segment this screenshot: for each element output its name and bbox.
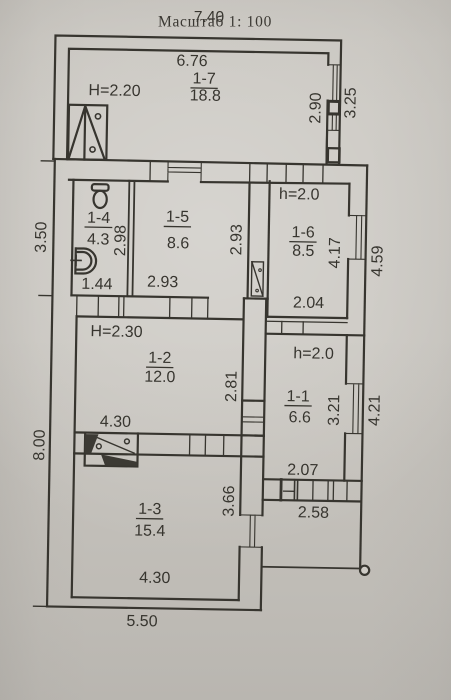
texts room 1-6 <box>277 186 326 312</box>
svg-text:4.21: 4.21 <box>366 395 384 427</box>
underline 1-4 <box>85 226 111 228</box>
svg-text:15.4: 15.4 <box>134 522 166 540</box>
wall 1-6 west <box>267 181 269 316</box>
svg-text:4.59: 4.59 <box>369 245 387 277</box>
door opening 1-7 to 1-5 <box>168 161 202 182</box>
svg-text:6.6: 6.6 <box>288 409 311 426</box>
svg-text:1-2: 1-2 <box>148 350 172 367</box>
svg-text:2.07: 2.07 <box>287 462 319 480</box>
svg-text:1-7: 1-7 <box>192 70 216 87</box>
partition 1-4 / 1-5 <box>127 181 134 297</box>
svg-text:2.04: 2.04 <box>293 294 325 312</box>
survey point circle <box>360 566 369 575</box>
west inner wall middle band <box>71 180 73 295</box>
texts room 1-3 <box>126 501 171 631</box>
svg-text:1-5: 1-5 <box>166 208 190 225</box>
underline 1-2 <box>147 366 173 368</box>
svg-text:3.66: 3.66 <box>221 485 239 517</box>
bottom outer wall <box>47 606 261 610</box>
underline 1-3 <box>137 517 163 519</box>
svg-text:4.30: 4.30 <box>100 413 132 431</box>
svg-text:18.8: 18.8 <box>190 87 222 105</box>
underline 1-6 <box>290 241 316 243</box>
texts room 1-4 <box>81 210 114 294</box>
svg-text:H=2.20: H=2.20 <box>88 82 140 100</box>
left dimension ticks <box>34 161 55 607</box>
toilet tank <box>92 184 109 191</box>
svg-text:H=2.30: H=2.30 <box>90 323 142 341</box>
hallway band 1-6 / 1-1 <box>267 317 347 318</box>
wall band 1-2 / 1-3 <box>75 432 264 435</box>
svg-text:1.44: 1.44 <box>81 276 113 294</box>
svg-text:6.76: 6.76 <box>176 53 208 71</box>
svg-text:3.21: 3.21 <box>326 394 344 426</box>
underline 1-1 <box>285 405 311 407</box>
bottom band of 1-1 <box>263 479 362 481</box>
svg-text:4.3: 4.3 <box>87 231 110 248</box>
room 1-2 west inner wall <box>72 316 77 597</box>
east inner wall <box>344 184 349 481</box>
texts room 1-7 <box>88 51 221 105</box>
window room 1-6 <box>348 215 366 259</box>
wall band between 1-7 and middle rooms <box>53 159 367 165</box>
window room 1-3 east <box>240 515 263 547</box>
svg-text:1-3: 1-3 <box>138 501 162 518</box>
svg-text:4.30: 4.30 <box>139 570 171 588</box>
underline 1-7 <box>191 87 217 89</box>
door 1-1 south <box>281 480 298 501</box>
wash basin <box>75 248 96 273</box>
svg-text:h=2.0: h=2.0 <box>293 345 334 363</box>
window W2 east wall 1-7 <box>327 114 340 130</box>
pier east wall 1-7 <box>328 101 339 114</box>
door opening hallway to 1-1 <box>282 321 304 334</box>
svg-text:h=2.0: h=2.0 <box>279 186 320 204</box>
underline 1-5 <box>164 225 190 227</box>
door leaf strip to hallway <box>251 262 263 296</box>
texts room 1-1 <box>284 345 334 522</box>
stove in 1-7 <box>68 105 107 160</box>
stove between 1-2 and 1-3 <box>85 433 138 467</box>
svg-text:12.0: 12.0 <box>144 369 176 387</box>
fence line to survey point <box>262 567 359 569</box>
svg-text:5.50: 5.50 <box>126 613 158 631</box>
bottom band of middle rooms <box>71 295 267 298</box>
svg-text:4.17: 4.17 <box>326 237 344 269</box>
svg-text:3.25: 3.25 <box>342 87 360 119</box>
inner wall room 1-7 <box>67 49 328 164</box>
texts room 1-5 <box>147 208 190 291</box>
east outer wall <box>360 165 367 566</box>
svg-text:1-4: 1-4 <box>87 210 111 227</box>
window room 1-1 <box>345 384 363 434</box>
outer wall room 1-7 <box>53 36 341 164</box>
svg-text:1-1: 1-1 <box>286 388 310 405</box>
svg-text:2.58: 2.58 <box>298 504 330 522</box>
svg-text:1-6: 1-6 <box>291 224 315 241</box>
svg-text:8.5: 8.5 <box>292 243 315 260</box>
band ticks and doors <box>77 295 208 318</box>
basin tap <box>71 255 81 265</box>
central spine wall <box>239 298 244 600</box>
west outer wall <box>47 159 55 606</box>
svg-text:2.98: 2.98 <box>112 225 130 257</box>
svg-text:2.90: 2.90 <box>307 92 325 124</box>
window W1 east wall 1-7 <box>328 65 341 101</box>
svg-text:Масштаб 1: 100: Масштаб 1: 100 <box>158 14 272 31</box>
partition 1-5 / strip <box>248 183 250 298</box>
spine door caps <box>242 401 265 436</box>
room 1-3 bottom inner wall <box>72 597 239 600</box>
toilet bowl <box>93 191 106 208</box>
svg-text:8.00: 8.00 <box>31 429 49 461</box>
ticks top band of 1-6 <box>150 162 323 183</box>
chimney box <box>328 148 340 162</box>
svg-text:2.93: 2.93 <box>147 274 179 292</box>
svg-text:2.81: 2.81 <box>223 371 241 403</box>
svg-text:8.6: 8.6 <box>167 235 190 252</box>
texts room 1-2 <box>89 323 177 431</box>
svg-text:3.50: 3.50 <box>33 221 51 253</box>
svg-text:2.93: 2.93 <box>228 224 246 256</box>
